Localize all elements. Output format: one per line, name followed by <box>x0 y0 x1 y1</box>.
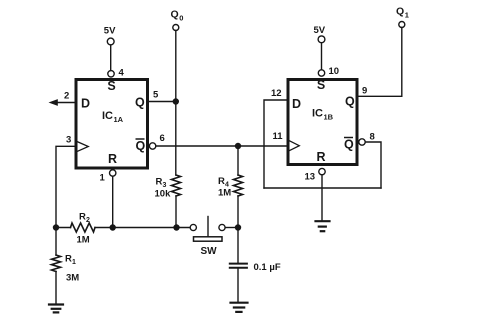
wire 5V to pin 4 <box>110 45 112 71</box>
wire bus SW right to R4 node <box>225 227 238 229</box>
svg-text:13: 13 <box>305 172 316 183</box>
svg-text:1: 1 <box>405 11 409 20</box>
wire R1 bottom to ground <box>55 272 57 305</box>
node D junction dot (pin1/bus) <box>110 224 116 230</box>
svg-text:10k: 10k <box>155 189 172 200</box>
wire R4 top to pin6 wire node <box>237 146 239 175</box>
svg-text:Q: Q <box>171 9 179 21</box>
switch SW bar <box>194 237 223 241</box>
svg-text:0.1 µF: 0.1 µF <box>254 262 281 273</box>
capacitor C1 plates <box>230 264 247 268</box>
resistor R4 <box>234 175 243 196</box>
pin 13 bubble (IC1B R) <box>319 168 325 174</box>
svg-text:IC: IC <box>102 110 113 122</box>
wire feedback bottom <box>264 187 381 189</box>
svg-text:R: R <box>79 212 86 223</box>
resistor R1 <box>52 255 61 272</box>
svg-text:Q: Q <box>396 6 404 18</box>
svg-text:12: 12 <box>271 88 282 99</box>
svg-text:5V: 5V <box>104 26 116 37</box>
svg-text:3M: 3M <box>66 273 79 284</box>
svg-text:Q: Q <box>345 95 355 109</box>
wire pin 5 Q to node A <box>148 101 176 103</box>
pin 6 bubble (IC1A Qbar) <box>149 143 155 149</box>
arrowhead on pin 2 wire <box>49 99 58 106</box>
wire R1 top <box>55 228 57 256</box>
svg-text:4: 4 <box>119 68 125 79</box>
wire pin 6 Qbar to pin 11 of IC1B <box>156 145 287 147</box>
node A junction dot (Q/Q0/R3) <box>173 98 179 104</box>
terminal Q1 <box>399 22 405 28</box>
svg-text:D: D <box>81 97 90 111</box>
terminal 5V (left) <box>107 38 114 45</box>
svg-text:R: R <box>65 254 72 265</box>
svg-text:IC: IC <box>312 108 323 120</box>
label R2 value <box>77 212 91 246</box>
svg-text:R: R <box>218 176 225 187</box>
wire R3 bottom to bus <box>175 196 177 228</box>
node F junction dot (SW/R4/cap) <box>235 224 241 230</box>
pin 10 bubble (IC1B S) <box>318 70 324 76</box>
label IC1A <box>102 110 124 124</box>
svg-text:9: 9 <box>362 86 367 97</box>
label R3 value <box>155 177 172 200</box>
svg-text:1B: 1B <box>324 113 334 122</box>
svg-text:S: S <box>317 78 325 92</box>
wire R4 bottom to bus and capacitor <box>237 196 239 263</box>
svg-text:R: R <box>156 177 163 188</box>
wire bus R2 to SW left <box>95 227 190 229</box>
ground (R1) <box>49 305 63 313</box>
node E junction dot (R3 bottom/SW) <box>173 224 179 230</box>
ground (capacitor) <box>231 303 248 312</box>
svg-text:8: 8 <box>370 132 375 143</box>
svg-text:Q: Q <box>136 139 146 153</box>
node C junction dot (R1/R2/pin3) <box>53 224 59 230</box>
label R4 value <box>218 176 231 199</box>
svg-text:5V: 5V <box>314 25 326 36</box>
svg-text:3: 3 <box>66 135 71 146</box>
IC1B clock triangle (pin 11) <box>290 141 300 150</box>
IC1A clock triangle (pin 3) <box>78 142 89 151</box>
svg-text:10: 10 <box>329 66 340 77</box>
svg-text:6: 6 <box>160 133 165 144</box>
wire pin 12 D input feedback left leg <box>264 100 287 188</box>
resistor R2 <box>71 223 96 232</box>
label R1 value <box>65 254 79 284</box>
wire pin 3 clock input from bottom bus <box>56 146 75 227</box>
wire pin 2 D output <box>57 102 75 104</box>
svg-text:1: 1 <box>100 173 106 184</box>
resistor R3 <box>172 175 181 196</box>
label Q0 <box>171 9 184 23</box>
wire pin 8 Qbar feedback right leg <box>365 142 381 188</box>
ground (IC1B R pin) <box>316 221 330 231</box>
wire pin 13 to ground <box>321 175 323 221</box>
svg-text:0: 0 <box>179 14 183 23</box>
pin 8 bubble (IC1B Qbar) <box>359 139 365 145</box>
wire pin 1 down to bus <box>112 176 114 227</box>
wire Q0 down to node A and R3 top <box>175 31 177 176</box>
svg-text:11: 11 <box>273 131 284 142</box>
pin 1 bubble (IC1A R) <box>110 170 116 176</box>
terminal Q0 <box>173 25 179 31</box>
terminal 5V (right) <box>318 36 325 43</box>
svg-text:Q: Q <box>344 138 354 152</box>
label Q1 <box>396 6 409 20</box>
svg-text:SW: SW <box>201 246 218 257</box>
label IC1B <box>312 108 334 122</box>
pin 4 bubble (IC1A S) <box>108 71 114 77</box>
svg-text:R: R <box>108 152 117 166</box>
wire Q1 down to pin 9 <box>358 28 402 97</box>
svg-text:5: 5 <box>153 90 159 101</box>
svg-text:1: 1 <box>72 259 76 266</box>
svg-text:S: S <box>107 79 115 93</box>
op-amp U2: IC1B flip-flop box <box>288 80 357 165</box>
switch SW actuator stem <box>207 217 209 237</box>
svg-text:Q: Q <box>135 96 145 110</box>
svg-text:R: R <box>316 150 325 164</box>
op-amp U1: IC1A flip-flop box <box>76 80 148 169</box>
svg-text:2: 2 <box>64 91 69 102</box>
wire bottom bus left <box>56 227 71 229</box>
svg-text:2: 2 <box>86 217 90 224</box>
switch SW terminals <box>190 224 196 230</box>
wire 5V to pin 10 <box>321 43 323 70</box>
svg-text:1A: 1A <box>114 115 124 124</box>
svg-text:D: D <box>292 97 301 111</box>
wire capacitor to ground <box>237 268 239 303</box>
svg-text:1M: 1M <box>218 188 231 199</box>
svg-text:1M: 1M <box>77 235 90 246</box>
node B junction dot (pin6 wire/R4) <box>235 143 241 149</box>
